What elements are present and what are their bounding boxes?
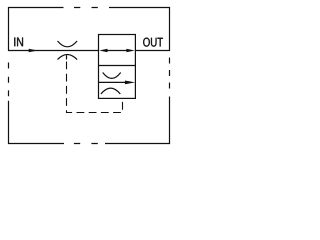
arrowhead bottom cell	[125, 81, 135, 85]
IN port label	[14, 38, 23, 47]
orifice (main metering) lower arc	[58, 55, 78, 60]
wire: OUT flow line	[135, 50, 169, 52]
valve V1 position divider	[99, 65, 136, 67]
OUT port label	[143, 38, 163, 47]
enclosure border bottom	[8, 143, 170, 145]
orifice (compensated position) upper arc	[103, 73, 121, 79]
orifice (main metering) upper arc	[58, 41, 78, 47]
arrowhead on IN flow line	[29, 49, 38, 52]
pilot line stub below main orifice	[66, 55, 68, 59]
wire: compensator spool double-arrow shaft	[104, 50, 128, 52]
arrowhead right (double arrow)	[126, 49, 134, 52]
pilot line (dashed): down, right, up to valve bottom	[67, 62, 123, 113]
orifice (compensated position) lower arc	[101, 88, 120, 94]
wire: bottom-cell flow line	[99, 81, 126, 83]
valve body V1 (compensator envelope)	[99, 35, 136, 99]
arrowhead left (double arrow)	[99, 49, 107, 52]
wire: IN flow line	[8, 50, 99, 52]
enclosure border top	[8, 7, 170, 9]
enclosure border left	[8, 7, 10, 144]
enclosure border right	[169, 7, 171, 144]
